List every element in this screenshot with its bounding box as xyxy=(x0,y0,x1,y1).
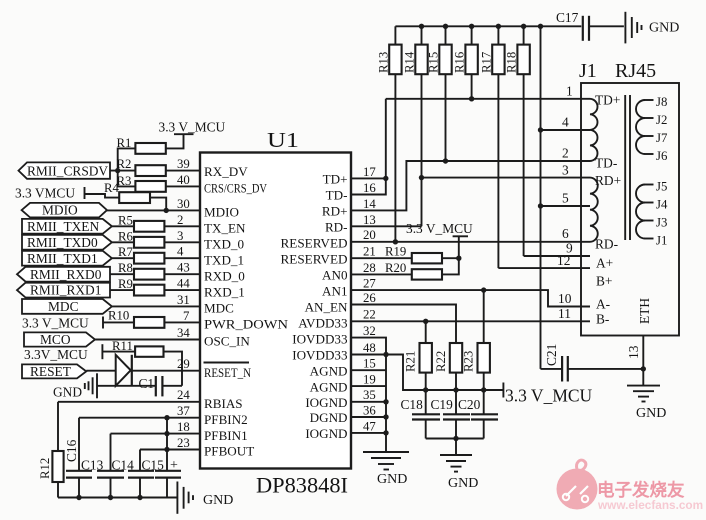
svg-text:3.3V_MCU: 3.3V_MCU xyxy=(24,347,88,362)
svg-text:RXD_0: RXD_0 xyxy=(204,268,245,283)
wire IOGND pin 47 xyxy=(351,432,386,434)
capacitor C20 xyxy=(458,390,498,439)
svg-text:RESERVED: RESERVED xyxy=(281,251,348,266)
svg-text:RMII_TXD0: RMII_TXD0 xyxy=(27,235,98,250)
power 3.3 V_MCU (bottom) xyxy=(503,383,592,406)
svg-text:13: 13 xyxy=(626,345,641,359)
resistor R6 xyxy=(118,229,200,247)
flag MDIO xyxy=(22,203,107,218)
flag RMII_TXD1 xyxy=(22,251,112,266)
svg-text:C1: C1 xyxy=(139,376,155,391)
svg-text:R20: R20 xyxy=(385,261,406,275)
svg-text:40: 40 xyxy=(177,173,190,187)
resistor R12 xyxy=(38,402,64,498)
svg-text:RBIAS: RBIAS xyxy=(204,396,243,411)
svg-text:RXD_1: RXD_1 xyxy=(204,284,245,299)
svg-text:DGND: DGND xyxy=(310,410,348,425)
svg-text:10: 10 xyxy=(558,291,572,306)
svg-text:22: 22 xyxy=(363,308,376,322)
svg-text:RESET_N: RESET_N xyxy=(204,365,251,380)
wire TD- pin 16 up to J1 pin 1 xyxy=(351,99,386,195)
svg-text:4: 4 xyxy=(177,245,184,259)
svg-text:27: 27 xyxy=(363,277,376,291)
wire PFBOUT pin 23 xyxy=(140,447,200,452)
svg-text:A+: A+ xyxy=(596,256,613,271)
wire MDIO xyxy=(107,209,200,211)
svg-text:电子发烧友: 电子发烧友 xyxy=(597,480,685,500)
svg-text:OSC_IN: OSC_IN xyxy=(204,334,250,349)
svg-text:16: 16 xyxy=(363,181,376,195)
svg-text:TD+: TD+ xyxy=(595,93,620,108)
svg-text:AN_EN: AN_EN xyxy=(305,300,348,315)
svg-text:21: 21 xyxy=(363,245,376,259)
capacitor C21 xyxy=(541,344,644,382)
svg-text:RESET: RESET xyxy=(30,364,71,379)
svg-text:R5: R5 xyxy=(118,213,133,227)
svg-text:43: 43 xyxy=(177,261,190,275)
svg-text:R21: R21 xyxy=(404,351,418,372)
wire AN1 pin 27 to J1 pin 10 xyxy=(351,287,590,306)
svg-text:AN0: AN0 xyxy=(322,268,348,283)
svg-text:R12: R12 xyxy=(38,458,52,479)
svg-text:J4: J4 xyxy=(656,198,668,212)
wire RMII_RXD1 xyxy=(110,289,134,291)
svg-text:36: 36 xyxy=(363,403,376,417)
svg-text:6: 6 xyxy=(562,226,569,241)
svg-text:MDIO: MDIO xyxy=(42,203,78,218)
svg-text:7: 7 xyxy=(183,309,190,323)
resistor R9 xyxy=(118,277,200,295)
wire AN_EN pin 26 xyxy=(351,305,456,344)
svg-text:28: 28 xyxy=(363,261,376,275)
svg-text:RD+: RD+ xyxy=(322,204,348,219)
wire J1 pin 3 line xyxy=(419,175,590,180)
watermark elecfans logo xyxy=(557,460,704,512)
svg-text:48: 48 xyxy=(363,341,376,355)
capacitor C1 xyxy=(139,376,183,396)
svg-text:A-: A- xyxy=(596,297,610,312)
wire RBIAS pin 24 xyxy=(58,401,200,403)
svg-text:J7: J7 xyxy=(656,131,668,145)
wire TD+ pin 17 xyxy=(351,176,388,181)
svg-text:C17: C17 xyxy=(556,10,579,25)
svg-text:RX_DV: RX_DV xyxy=(204,164,248,179)
svg-text:RD-: RD- xyxy=(325,220,348,235)
svg-text:TX_EN: TX_EN xyxy=(204,221,246,236)
diode D1 xyxy=(116,355,132,386)
wire MDC xyxy=(112,305,200,307)
flag RMII_CRSDV xyxy=(19,162,111,178)
wire PFBIN2 pin 37 xyxy=(79,415,200,420)
svg-text:MCO: MCO xyxy=(40,332,71,347)
svg-text:GND: GND xyxy=(377,472,407,487)
svg-text:B+: B+ xyxy=(596,274,612,289)
transformer core xyxy=(625,95,630,240)
svg-text:3.3 V_MCU: 3.3 V_MCU xyxy=(505,386,593,406)
svg-text:PFBIN2: PFBIN2 xyxy=(204,412,248,427)
svg-text:R2: R2 xyxy=(117,157,132,171)
resistor R18 xyxy=(505,26,530,256)
power 3.3V_MCU (reset) xyxy=(24,344,135,362)
svg-text:www.elecfans.com: www.elecfans.com xyxy=(597,498,703,512)
svg-text:3: 3 xyxy=(562,163,569,178)
capacitor C18 xyxy=(401,390,441,439)
svg-text:2: 2 xyxy=(177,213,183,227)
svg-text:IOGND: IOGND xyxy=(305,395,347,410)
svg-text:J1: J1 xyxy=(579,60,597,82)
flag RMII_RXD0 xyxy=(17,267,110,282)
ground (bottom-left, sideways) xyxy=(177,482,233,514)
svg-text:J6: J6 xyxy=(656,149,668,163)
svg-text:14: 14 xyxy=(363,197,376,211)
svg-text:C21: C21 xyxy=(544,344,559,366)
resistor R15 xyxy=(427,26,452,161)
wire IOGND pin 35 xyxy=(351,401,386,403)
svg-text:44: 44 xyxy=(177,277,190,291)
wire AGND pin 19 xyxy=(351,385,386,387)
wire RD- pin 13 xyxy=(351,225,422,227)
svg-text:RMII_CRSDV: RMII_CRSDV xyxy=(27,164,108,179)
svg-text:PFBOUT: PFBOUT xyxy=(204,444,254,459)
svg-text:AVDD33: AVDD33 xyxy=(298,316,348,331)
resistor R13 xyxy=(376,26,401,242)
svg-text:MDC: MDC xyxy=(48,299,79,314)
svg-text:R10: R10 xyxy=(108,309,129,323)
svg-text:R22: R22 xyxy=(434,351,448,372)
svg-text:3.3 V_MCU: 3.3 V_MCU xyxy=(22,316,89,331)
resistor R20 xyxy=(351,236,459,279)
svg-text:3.3 V_MCU: 3.3 V_MCU xyxy=(159,120,226,135)
svg-text:B-: B- xyxy=(596,312,609,327)
connector J1 RJ45 body xyxy=(579,60,679,336)
power 3.3 V_MCU (R19/R20) xyxy=(406,221,473,236)
flag RMII_TXEN xyxy=(22,219,112,234)
svg-text:RD+: RD+ xyxy=(595,173,621,188)
svg-text:5: 5 xyxy=(562,191,569,206)
ground (C18-C20) xyxy=(440,455,478,491)
wire RESERVED pin 20 to J1 pin 6 xyxy=(351,239,590,244)
resistor R21 xyxy=(404,321,432,390)
svg-text:GND: GND xyxy=(53,385,82,400)
wire R18 to J1 pin 9 xyxy=(524,255,590,257)
wire IOVDD33 pin 32 xyxy=(351,338,389,452)
capacitor C17 xyxy=(556,10,624,41)
svg-text:9: 9 xyxy=(566,241,573,256)
svg-text:3: 3 xyxy=(177,229,183,243)
svg-text:31: 31 xyxy=(177,293,190,307)
flag MCO xyxy=(24,332,95,347)
resistor R4 xyxy=(104,181,169,213)
svg-text:IOGND: IOGND xyxy=(305,426,347,441)
power 3.3 V_MCU (PWR_DOWN) xyxy=(22,316,134,331)
wire bottom rail xyxy=(58,495,177,500)
wire J1 pin 5 line xyxy=(541,205,591,207)
wire GND to C1 xyxy=(97,385,156,387)
svg-text:TXD_1: TXD_1 xyxy=(204,252,244,267)
svg-text:MDC: MDC xyxy=(204,301,234,316)
wire R17 to J1 pin 12 xyxy=(498,267,590,269)
resistor R2 xyxy=(117,157,201,176)
transformer secondary winding bottom (right) xyxy=(636,185,654,239)
svg-text:AGND: AGND xyxy=(310,363,348,378)
flag MDC xyxy=(22,299,112,314)
wire J1 pin 13 xyxy=(626,336,646,386)
wire DGND pin 36 xyxy=(351,416,386,418)
svg-text:4: 4 xyxy=(562,115,569,130)
svg-text:37: 37 xyxy=(177,404,190,418)
svg-text:DP83848I: DP83848I xyxy=(256,473,348,498)
svg-text:R9: R9 xyxy=(118,277,133,291)
svg-text:39: 39 xyxy=(177,157,190,171)
svg-text:R6: R6 xyxy=(118,229,134,243)
wire RESET_N xyxy=(86,370,200,372)
svg-text:3.3 VMCU: 3.3 VMCU xyxy=(15,186,75,201)
svg-text:TD-: TD- xyxy=(595,156,617,171)
wire AVDD33 pin 22 to J1 pin 11 xyxy=(351,319,590,324)
svg-text:26: 26 xyxy=(363,291,376,305)
wire node CRSDV xyxy=(110,168,135,186)
svg-text:2: 2 xyxy=(562,146,569,161)
wire center-tap vertical xyxy=(538,26,543,369)
wire RMII_TXD0 xyxy=(112,241,134,243)
capacitor C14 xyxy=(112,450,155,498)
wire PFBIN1 pin 18 xyxy=(111,431,201,436)
svg-text:R4: R4 xyxy=(104,181,120,195)
svg-text:C20: C20 xyxy=(458,397,481,412)
power 3.3 V_MCU top-left xyxy=(159,120,226,149)
svg-text:17: 17 xyxy=(363,165,376,179)
svg-text:ETH: ETH xyxy=(637,298,652,324)
svg-text:13: 13 xyxy=(363,213,376,227)
transformer TD winding (left) xyxy=(590,99,598,161)
svg-text:34: 34 xyxy=(177,326,190,340)
op-amp U1 chip DP83848I body xyxy=(200,128,351,498)
wire J1 pin 1 line xyxy=(386,96,590,101)
svg-text:TD-: TD- xyxy=(326,188,348,203)
svg-text:RD-: RD- xyxy=(595,237,618,252)
resistor R16 xyxy=(453,26,478,99)
svg-text:IOVDD33: IOVDD33 xyxy=(292,348,348,363)
svg-text:32: 32 xyxy=(363,324,376,338)
svg-text:C18: C18 xyxy=(401,397,424,412)
svg-text:47: 47 xyxy=(363,419,376,433)
svg-text:TD+: TD+ xyxy=(323,172,348,187)
ground (chip GND pins) xyxy=(363,452,409,487)
wire IOVDD33 pin 48 to 3.3V rail xyxy=(351,355,503,393)
svg-text:30: 30 xyxy=(177,197,190,211)
svg-text:GND: GND xyxy=(203,493,233,508)
svg-text:J3: J3 xyxy=(656,216,667,230)
svg-text:11: 11 xyxy=(558,306,571,321)
wire RD+ pin 14 to J1 pin 2 xyxy=(351,158,590,210)
resistor R22 xyxy=(434,343,462,390)
svg-text:35: 35 xyxy=(363,388,376,402)
svg-text:RESERVED: RESERVED xyxy=(281,236,348,251)
wire top rail xyxy=(395,24,581,29)
resistor R3 xyxy=(117,174,201,192)
flag RESET xyxy=(22,364,86,379)
wire RMII_TXD1 xyxy=(112,257,134,259)
svg-text:J5: J5 xyxy=(656,180,667,194)
svg-text:AN1: AN1 xyxy=(322,283,347,298)
wire AGND pin 15 xyxy=(351,369,386,371)
U1 left pin names xyxy=(204,164,289,459)
svg-text:GND: GND xyxy=(636,406,666,421)
flag RMII_TXD0 xyxy=(22,235,112,250)
power 3.3 VMCU (R4) xyxy=(15,186,119,201)
svg-text:18: 18 xyxy=(177,420,190,434)
transformer RD winding (left) xyxy=(590,178,598,242)
capacitor C15 (+) xyxy=(142,418,182,498)
transformer secondary winding top (right) xyxy=(636,100,654,154)
ground (J1 pin 13) xyxy=(627,386,666,421)
capacitor C16 xyxy=(64,418,92,498)
svg-text:RMII_TXEN: RMII_TXEN xyxy=(27,219,99,234)
capacitor C13 xyxy=(81,434,124,498)
svg-text:RJ45: RJ45 xyxy=(615,60,656,82)
svg-text:GND: GND xyxy=(448,476,478,491)
ground (C17, sideways) xyxy=(625,12,679,44)
svg-text:15: 15 xyxy=(363,357,376,371)
svg-text:C16: C16 xyxy=(64,439,79,462)
resistor R14 xyxy=(403,26,428,226)
svg-text:24: 24 xyxy=(177,388,190,402)
svg-text:R23: R23 xyxy=(462,351,476,372)
svg-text:R19: R19 xyxy=(385,245,406,259)
svg-text:RMII_TXD1: RMII_TXD1 xyxy=(27,251,98,266)
wire cap tie xyxy=(426,436,484,455)
wire RMII_TXEN xyxy=(112,225,134,227)
resistor R8 xyxy=(118,261,200,279)
resistor R11 xyxy=(112,339,182,386)
svg-text:R8: R8 xyxy=(118,261,133,275)
svg-text:J1: J1 xyxy=(656,234,667,248)
resistor R10 xyxy=(108,309,200,328)
capacitor C19 xyxy=(431,390,471,439)
svg-text:RMII_RXD1: RMII_RXD1 xyxy=(30,283,101,298)
svg-text:RMII_RXD0: RMII_RXD0 xyxy=(30,267,102,282)
wire J1 pin 4 line xyxy=(541,129,591,131)
svg-text:20: 20 xyxy=(363,228,376,242)
svg-text:U1: U1 xyxy=(267,128,299,152)
wire RMII_RXD0 xyxy=(110,273,134,275)
svg-text:IOVDD33: IOVDD33 xyxy=(292,332,348,347)
U1 right pin names xyxy=(281,172,349,442)
svg-text:29: 29 xyxy=(177,357,190,371)
resistor R19 xyxy=(351,245,461,264)
ground (reset, sideways) xyxy=(53,373,97,399)
resistor R23 xyxy=(462,290,490,390)
svg-text:PFBIN1: PFBIN1 xyxy=(204,428,248,443)
svg-text:23: 23 xyxy=(177,436,190,450)
svg-text:R11: R11 xyxy=(112,339,133,353)
resistor R5 xyxy=(118,213,200,231)
svg-text:PWR_DOWN: PWR_DOWN xyxy=(204,317,289,332)
wire OSC_IN xyxy=(95,339,200,341)
svg-text:J8: J8 xyxy=(656,95,667,109)
svg-text:C19: C19 xyxy=(431,397,454,412)
svg-text:MDIO: MDIO xyxy=(204,205,239,220)
svg-text:1: 1 xyxy=(566,84,573,99)
svg-text:CRS/CRS_DV: CRS/CRS_DV xyxy=(204,180,267,195)
svg-text:3.3 V_MCU: 3.3 V_MCU xyxy=(406,221,473,236)
svg-text:R7: R7 xyxy=(118,245,134,259)
flag RMII_RXD1 xyxy=(17,283,110,298)
svg-text:TXD_0: TXD_0 xyxy=(204,237,244,252)
svg-text:19: 19 xyxy=(363,373,376,387)
svg-text:J2: J2 xyxy=(656,113,667,127)
svg-text:AGND: AGND xyxy=(310,379,348,394)
svg-text:GND: GND xyxy=(649,21,679,36)
resistor R1 xyxy=(117,136,166,171)
resistor R17 xyxy=(479,26,504,268)
resistor R7 xyxy=(118,245,200,263)
